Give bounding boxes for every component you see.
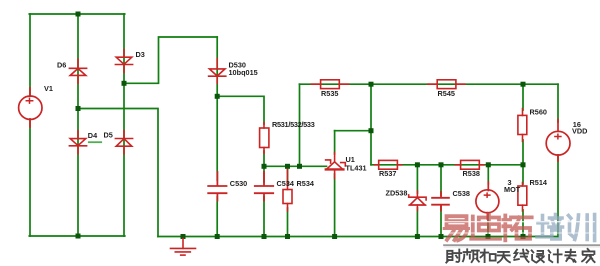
watermark slogan char tian	[498, 252, 510, 263]
resistor R535	[312, 80, 349, 89]
capacitor C534	[255, 172, 273, 201]
wire C530 lower	[216, 197, 218, 237]
node junction R560/R514	[521, 162, 526, 167]
wire D530 junction to R531 column	[217, 96, 264, 124]
diode D530	[209, 59, 226, 84]
wire bottom rail right	[158, 236, 558, 238]
node junction C534 bottom	[262, 234, 267, 239]
watermark slogan char xian	[514, 250, 528, 262]
svg-text:R537: R537	[379, 169, 396, 178]
svg-text:D5: D5	[104, 130, 113, 139]
zener diode ZD538	[409, 191, 426, 211]
svg-text:VDD: VDD	[572, 127, 587, 136]
node junction C538 top	[439, 162, 444, 167]
node junction R534 bottom	[285, 234, 290, 239]
svg-text:R514: R514	[530, 178, 548, 187]
capacitor C530	[208, 172, 226, 201]
svg-text:R534: R534	[297, 179, 315, 188]
net marker under D4 label	[89, 141, 101, 143]
wire TL431 anode to ground rail	[334, 174, 336, 237]
node junction C538 bottom	[439, 234, 444, 239]
wire C538 column	[440, 165, 442, 237]
node junction feedback C534	[262, 164, 267, 169]
node junction bottom left rail	[76, 234, 81, 239]
svg-text:C530: C530	[230, 179, 247, 188]
wire ZD538 column	[416, 165, 418, 237]
wire top rail left	[29, 13, 124, 15]
resistor R514	[518, 183, 527, 212]
wire R535 left leg	[299, 84, 301, 166]
svg-text:R538: R538	[463, 169, 480, 178]
node junction MOT bottom	[486, 234, 491, 239]
wire top rail right	[300, 83, 559, 85]
svg-text:MOT: MOT	[504, 185, 521, 194]
watermark slogan char pin	[463, 249, 479, 262]
node junction ZD538 top	[415, 162, 420, 167]
watermark logo char xun	[569, 215, 595, 241]
node junction top rail R560	[521, 82, 526, 87]
wire TL431 cathode link	[335, 84, 371, 165]
wire D6/D4 column	[77, 14, 79, 236]
node junction C530 bottom	[215, 234, 220, 239]
svg-text:D4: D4	[88, 131, 98, 140]
svg-text:R531/532/533: R531/532/533	[272, 120, 315, 129]
node junction feedback R534	[285, 164, 290, 169]
svg-text:R545: R545	[438, 89, 455, 98]
wire D530 column	[216, 37, 218, 180]
resistor R534	[283, 170, 292, 212]
svg-text:D6: D6	[57, 61, 66, 70]
wire D3/D5 column	[123, 14, 125, 236]
wire R560 column	[522, 84, 524, 165]
wire TL431 cathode stub	[334, 131, 336, 154]
diode D4	[69, 131, 86, 155]
node junction feedback R535	[297, 164, 302, 169]
node junction top rail R535/R545	[369, 82, 374, 87]
diode D5	[115, 131, 132, 155]
resistor R538	[456, 160, 485, 169]
wire VDD right leg	[557, 155, 559, 237]
svg-text:U1: U1	[346, 155, 355, 164]
resistor R531/532/533	[260, 123, 269, 154]
wire regulator mid rail	[371, 164, 523, 166]
node junction MOT top	[486, 162, 491, 167]
wire V1 column	[29, 14, 31, 236]
watermark slogan char zhuan	[565, 250, 575, 262]
watermark slogan char she	[446, 250, 461, 263]
svg-text:C538: C538	[453, 189, 470, 198]
svg-text:ZD538: ZD538	[386, 189, 408, 198]
voltage source V1	[19, 88, 42, 127]
current probe MOT (pin 3)	[476, 182, 499, 219]
wire VDD top lead	[557, 84, 559, 122]
svg-text:R560: R560	[530, 108, 547, 117]
resistor R537	[375, 160, 402, 169]
watermark slogan char he	[481, 250, 496, 262]
wire R514 column	[522, 165, 524, 237]
diode D6	[69, 59, 86, 84]
wire bottom rail left	[29, 235, 125, 237]
node junction D530 output	[215, 94, 220, 99]
watermark slogan char jia	[582, 249, 595, 262]
watermark slogan char she2	[532, 250, 544, 262]
capacitor C538	[432, 192, 449, 211]
node junction R514 bottom	[521, 234, 526, 239]
svg-text:TL431: TL431	[346, 164, 367, 173]
wire C534 lower	[263, 197, 265, 237]
wire R531 to mid rail	[263, 151, 265, 182]
watermark logo char yi	[444, 216, 468, 240]
node junction D6 anode	[76, 106, 81, 111]
voltage source VDD (pin 16)	[546, 120, 570, 162]
wire D3 to box corner	[124, 37, 217, 83]
op-amp U1 TL431 shunt regulator	[326, 153, 346, 179]
wire MOT column	[487, 165, 489, 237]
svg-text:D3: D3	[136, 50, 145, 59]
diode D3	[115, 50, 132, 73]
node junction TL431 anode bottom	[332, 234, 337, 239]
ground	[171, 239, 196, 256]
watermark divider rule	[444, 244, 600, 246]
watermark logo white sheen	[444, 221, 594, 223]
node junction ground rail	[181, 234, 186, 239]
svg-text:R535: R535	[321, 89, 338, 98]
node junction ZD538 bottom	[415, 234, 420, 239]
watermark logo char tuo	[503, 216, 531, 241]
node junction TL431 cathode	[369, 128, 374, 133]
wire secondary return leg	[78, 109, 158, 237]
resistor R560	[518, 109, 527, 142]
wire mid rail left (feedback node)	[264, 165, 327, 167]
watermark logo char di	[471, 215, 500, 239]
node junction D3 cathode	[122, 81, 127, 86]
resistor R545	[428, 80, 465, 89]
svg-text:V1: V1	[44, 84, 53, 93]
svg-text:10bq015: 10bq015	[229, 68, 258, 77]
node junction top-left	[76, 12, 81, 17]
svg-text:C534: C534	[277, 179, 295, 188]
wire R534 column	[287, 166, 289, 236]
watermark logo char pei	[537, 215, 563, 240]
watermark slogan char ji	[549, 250, 562, 263]
